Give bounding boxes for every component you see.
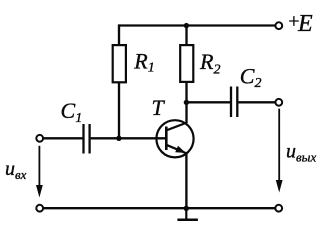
arrow u_out [276,109,283,193]
wire R1 top [118,24,120,45]
arrow u_in [36,146,43,198]
wire bottom rail [43,207,275,209]
wire collector node to C2 [187,101,231,103]
node junction dot top rail / R2 [184,23,189,28]
svg-text:R1: R1 [133,49,154,76]
terminal +E [275,22,282,29]
node junction dot base [116,136,121,141]
svg-text:uвых: uвых [286,141,316,165]
wire input terminal to C1 [43,137,82,139]
node junction dot emitter / bottom rail [184,206,189,211]
wire emitter down [185,153,187,208]
wire top supply rail [119,24,275,26]
terminal output top [275,99,282,106]
wire R2 bottom to collector [185,82,187,123]
svg-text:uвх: uвх [5,158,27,182]
wire C1 to base [91,137,167,139]
ground symbol [177,208,198,220]
resistor R1 [113,45,126,82]
terminal bottom left [36,205,43,212]
svg-text:R2: R2 [199,49,220,78]
transistor emitter lead with arrow [166,145,187,154]
transistor Q1 circle [156,120,193,157]
svg-text:C1: C1 [61,98,83,126]
svg-text:T: T [152,95,166,120]
wire R1 bottom [118,83,120,139]
capacitor C1 [84,124,90,154]
terminal bottom right [275,205,282,212]
transistor collector lead [166,123,187,131]
terminal input [36,135,43,142]
node junction dot collector [184,100,189,105]
svg-text:C2: C2 [240,64,262,92]
wire R2 top [185,24,187,45]
svg-text:E: E [297,11,313,37]
wire C2 to output terminal [238,101,275,103]
transistor base bar [165,127,168,151]
resistor R2 [180,45,193,82]
capacitor C2 [231,87,237,118]
